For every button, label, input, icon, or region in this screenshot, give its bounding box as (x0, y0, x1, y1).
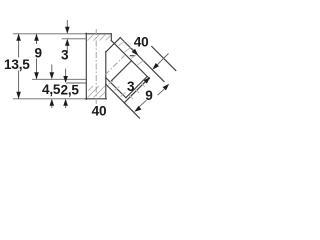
bottom extension line (13, 98, 86, 100)
dim line 13,5 (18, 34, 20, 58)
3 top up arrow (below) (65, 39, 70, 46)
svg-text:3: 3 (61, 48, 69, 63)
3 branch arrow pointing NE (144, 77, 151, 84)
4,5 down arrow above L1 (50, 72, 55, 79)
svg-text:13,5: 13,5 (4, 57, 30, 72)
dim 3 top tails (66, 20, 68, 28)
2,5 down arrow above L2 (63, 76, 68, 83)
chamfer to right edge (106, 44, 115, 53)
svg-text:4,5: 4,5 (42, 82, 61, 97)
svg-text:40: 40 (92, 104, 107, 119)
svg-text:3: 3 (127, 79, 135, 94)
dim 4,5 tails (51, 65, 53, 74)
extension lines (gray) (13, 20, 169, 108)
9 ne arrow (163, 84, 170, 91)
L1 ext (9 / 4,5) (32, 78, 86, 80)
peak ascent (114, 38, 120, 44)
9 down arrow (34, 72, 39, 79)
3 top down arrow (above) (65, 27, 70, 34)
notch drop (110, 34, 112, 41)
branch upper outer wall U_o (120, 38, 164, 82)
9 sw arrow (134, 106, 141, 112)
right edge (105, 52, 107, 99)
hatching top socket band (88, 35, 146, 100)
13,5 down arrow (16, 92, 21, 99)
svg-text:40: 40 (134, 35, 149, 50)
40 dim line D2 (152, 47, 176, 71)
2,5 up arrow below bottom (63, 99, 68, 106)
40 top leader line (132, 48, 134, 50)
centerline branch axis (105, 56, 125, 76)
3 branch arrow pointing SW (152, 63, 159, 70)
arrowheads (dark) (16, 27, 169, 112)
9 branch dim line ne (158, 89, 165, 95)
labels (4, 35, 153, 119)
pipe fitting outline: main vertical pipe (86, 33, 176, 118)
throat line (112, 61, 132, 81)
top extension line (13, 33, 86, 35)
hatching branch lower wall (109, 81, 114, 85)
socket inner line ext (3 dim) (62, 38, 87, 40)
left edge (85, 33, 87, 99)
hatching bottom band (88, 86, 100, 98)
top edge (socket rim) (86, 33, 112, 35)
L2 ext (2,5) (66, 82, 86, 84)
dim 2,5 tails (65, 69, 67, 78)
svg-text:2,5: 2,5 (61, 83, 80, 98)
bottom edge (86, 98, 107, 100)
9 up arrow (34, 34, 39, 41)
4,5 up arrow below bottom (50, 99, 55, 106)
40 top arrow pointing SE (132, 49, 139, 56)
centerline vertical (dash-dot) (96, 29, 124, 104)
branch upper inner wall U_i (114, 44, 149, 79)
dim line 9 (36, 34, 38, 44)
13,5 up arrow (16, 34, 21, 41)
hatching mouth band (130, 96, 134, 100)
branch mouth line M1 (126, 76, 147, 97)
notch valley (111, 41, 114, 44)
tick near 40 arrow (130, 55, 134, 57)
hatching branch upper wall (119, 42, 125, 46)
branch lower inner wall L_i (106, 78, 126, 98)
svg-text:9: 9 (35, 45, 43, 60)
9 branch dim line sw (139, 100, 146, 107)
3 branch sw-arrow tail (155, 54, 168, 67)
svg-text:9: 9 (145, 88, 153, 103)
branch lower outer wall L_o with extension (106, 84, 140, 118)
branch mouth rim M2 (3-dim line) (124, 80, 147, 103)
